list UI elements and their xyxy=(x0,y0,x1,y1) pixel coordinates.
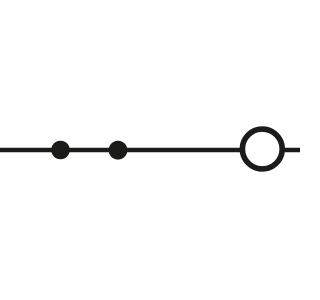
junction J1 xyxy=(51,141,70,160)
wire xyxy=(0,148,300,153)
terminal circle T1 xyxy=(242,129,282,169)
junction J2 xyxy=(109,141,128,160)
